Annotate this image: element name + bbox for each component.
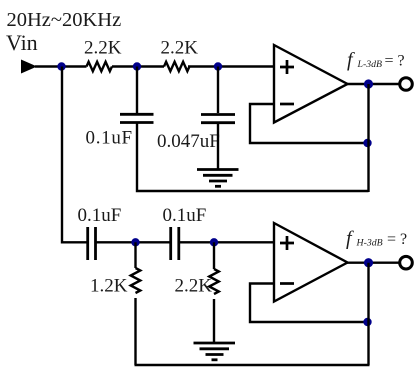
output terminal stage 1: [400, 78, 413, 91]
ground symbol stage 2: [194, 343, 236, 360]
svg-text:f: f: [346, 228, 354, 250]
svg-text:2.2K: 2.2K: [84, 38, 122, 59]
svg-text:L-3dB: L-3dB: [357, 59, 383, 70]
op-amp U1: [274, 45, 348, 123]
op-amp U2: [274, 223, 348, 302]
node F feedback junction U1: [363, 139, 371, 147]
wire U2 output to terminal: [346, 262, 400, 264]
node B junction R1/R2/C1: [133, 62, 141, 70]
wire U2 output down to bottom rail: [367, 263, 369, 365]
node OUT2 output junction: [364, 258, 373, 267]
svg-text:H-3dB: H-3dB: [356, 237, 383, 248]
svg-text:= ?: = ?: [385, 53, 405, 70]
capacitor C2 plates: [201, 115, 235, 123]
wire capacitor C1 to feedback bottom rail: [137, 124, 369, 192]
node A input junction: [57, 62, 65, 70]
svg-text:f: f: [347, 49, 355, 71]
svg-text:1.2K: 1.2K: [90, 276, 128, 297]
capacitor C3 plates: [88, 227, 96, 260]
node OUT1 output junction: [364, 79, 373, 88]
resistor R2: [164, 62, 189, 71]
wire U2 minus input feedback: [250, 284, 368, 323]
capacitor C1 plates: [120, 114, 154, 122]
wire C4 to op-amp U2 plus input through node E: [179, 241, 275, 243]
wire R1 to R2 through node B: [112, 65, 164, 67]
wire bottom rail stage 2: [135, 364, 370, 366]
resistor R1: [87, 62, 112, 71]
wire U1 output down to bottom rail: [367, 84, 369, 192]
wire input to resistor R1: [35, 65, 87, 67]
wire node A down to stage 2: [62, 67, 88, 243]
wire U1 output to terminal: [346, 83, 400, 85]
svg-text:= ?: = ?: [387, 231, 407, 248]
wire C3 to C4 through node D: [96, 241, 171, 243]
node C junction R2/C2: [214, 62, 222, 70]
wire U1 minus input feedback: [250, 104, 368, 143]
wire R2 to op-amp U1 plus input through node C: [188, 65, 275, 67]
resistor R4 2.2K: [209, 242, 219, 342]
node D junction C3/C4/R3: [131, 238, 139, 246]
svg-text:Vin: Vin: [6, 30, 38, 55]
svg-text:0.1uF: 0.1uF: [163, 205, 207, 226]
svg-text:0.1uF: 0.1uF: [86, 128, 133, 149]
capacitor C4 plates: [171, 227, 179, 260]
svg-text:20Hz~20KHz: 20Hz~20KHz: [7, 9, 122, 31]
svg-text:2.2K: 2.2K: [161, 38, 199, 59]
node G feedback junction U2: [363, 318, 371, 326]
resistor R3 1.2K: [131, 242, 141, 365]
node E junction C4/R4: [210, 238, 218, 246]
wire capacitor C2 to ground: [217, 124, 219, 170]
ground symbol stage 1: [197, 170, 239, 187]
label fL-3dB = ?: [347, 49, 405, 71]
output terminal stage 2: [400, 256, 413, 269]
wire node B down to capacitor C1: [136, 67, 138, 114]
label fH-3dB = ?: [346, 228, 407, 250]
svg-text:2.2K: 2.2K: [175, 276, 213, 297]
svg-text:0.1uF: 0.1uF: [78, 205, 122, 226]
wire node C down to capacitor C2: [217, 67, 219, 114]
input terminal Vin arrow: [21, 60, 37, 74]
svg-text:0.047uF: 0.047uF: [157, 131, 220, 152]
